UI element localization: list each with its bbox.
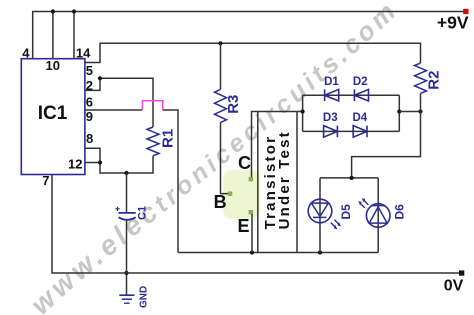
resistor R1 (147, 127, 177, 156)
wire R3 riser (220, 43, 222, 89)
node junction bridge left (301, 109, 305, 113)
wire C terminal riser and link to bridge (252, 112, 303, 178)
node junction C1/0V rail (124, 271, 128, 275)
socket pad B (228, 192, 232, 196)
svg-text:R2: R2 (426, 71, 443, 90)
svg-text:8: 8 (86, 131, 93, 146)
node junction C1 tap (124, 171, 128, 175)
node junction LED feed (350, 176, 354, 180)
svg-text:5: 5 (86, 63, 93, 78)
svg-text:D6: D6 (393, 204, 407, 220)
wire R2 bottom to LED top rail (352, 94, 421, 178)
svg-text:12: 12 (68, 157, 82, 172)
svg-text:R3: R3 (225, 95, 242, 114)
wire D5 vertical (319, 178, 321, 253)
wire pin 14 riser (73, 12, 75, 59)
diode D4 (353, 112, 368, 137)
wire E rail (178, 252, 378, 254)
wire C1 top lead (126, 173, 128, 213)
0V terminal (444, 270, 465, 294)
transistor under test box (258, 112, 297, 253)
node junction on +9V rail at pin14 (72, 9, 76, 13)
wire E terminal riser (251, 214, 253, 253)
wire pin 12 stub to R1 bottom (85, 156, 153, 173)
wire pin 5 to R2 top (85, 43, 421, 63)
svg-text:C1: C1 (137, 206, 149, 220)
capacitor C1 (115, 206, 148, 220)
LED D5 (308, 199, 353, 229)
wire pin 7 drop and 0V rail (52, 175, 459, 274)
wire pin 2 to R1 top (85, 78, 153, 127)
wire +9V rail with pin 4 riser (33, 12, 464, 59)
node junction pins 8-12 (98, 160, 102, 164)
svg-text:4: 4 (22, 46, 30, 61)
svg-text:2: 2 (86, 78, 93, 93)
diode D1 (324, 76, 339, 101)
svg-text:14: 14 (76, 46, 91, 61)
node junction at pin2 corner (98, 76, 102, 80)
resistor R3 (215, 89, 243, 122)
svg-text:6: 6 (86, 95, 93, 110)
svg-text:D1: D1 (324, 76, 339, 88)
wire C1 bottom lead to GND (126, 220, 128, 295)
node junction bridge right (397, 109, 401, 113)
resistor R2 (415, 63, 443, 93)
wire pin 6 right segment down to E rail (163, 110, 178, 253)
svg-text:9: 9 (86, 109, 93, 124)
wire D6 vertical (377, 178, 379, 253)
wire pin 6 left segment (85, 109, 142, 111)
svg-text:D3: D3 (323, 112, 338, 124)
node junction on +9V rail at pin10 (51, 9, 55, 13)
wire diode bridge frame (303, 95, 400, 131)
wire LED top rail (320, 177, 378, 179)
svg-text:D2: D2 (353, 76, 368, 88)
wire pink crossover jumper (142, 101, 162, 110)
svg-text:7: 7 (42, 173, 49, 188)
svg-text:C: C (238, 153, 251, 173)
svg-text:IC1: IC1 (38, 103, 68, 124)
socket pad C (249, 177, 253, 181)
diode D3 (323, 112, 338, 137)
ground GND (119, 286, 149, 308)
svg-text:D5: D5 (339, 204, 353, 220)
node junction R2 bottom (418, 109, 422, 113)
wire pin 8 riser (85, 148, 100, 162)
svg-text:Under Test: Under Test (276, 130, 293, 229)
wire R3 drop to B pad (221, 123, 229, 194)
diode D2 (353, 76, 369, 101)
LED D6 (359, 199, 407, 228)
wire bridge to R2 bottom (399, 111, 420, 113)
svg-text:0V: 0V (444, 277, 464, 294)
svg-text:E: E (238, 216, 250, 236)
socket pad area (223, 170, 260, 219)
IC1 body (21, 59, 85, 175)
svg-text:R1: R1 (160, 129, 177, 148)
svg-text:10: 10 (46, 58, 60, 73)
svg-text:D4: D4 (353, 112, 368, 124)
svg-text:+9V: +9V (437, 12, 469, 32)
socket pad E (249, 210, 253, 214)
svg-text:B: B (214, 192, 227, 212)
svg-text:GND: GND (139, 286, 150, 308)
+9V terminal (437, 9, 469, 33)
wire pin 10 riser (52, 12, 54, 59)
node junction D5 on E rail (318, 250, 322, 254)
node junction R3 tap on pin5 wire (218, 41, 222, 45)
node junction E riser on E rail (250, 250, 254, 254)
